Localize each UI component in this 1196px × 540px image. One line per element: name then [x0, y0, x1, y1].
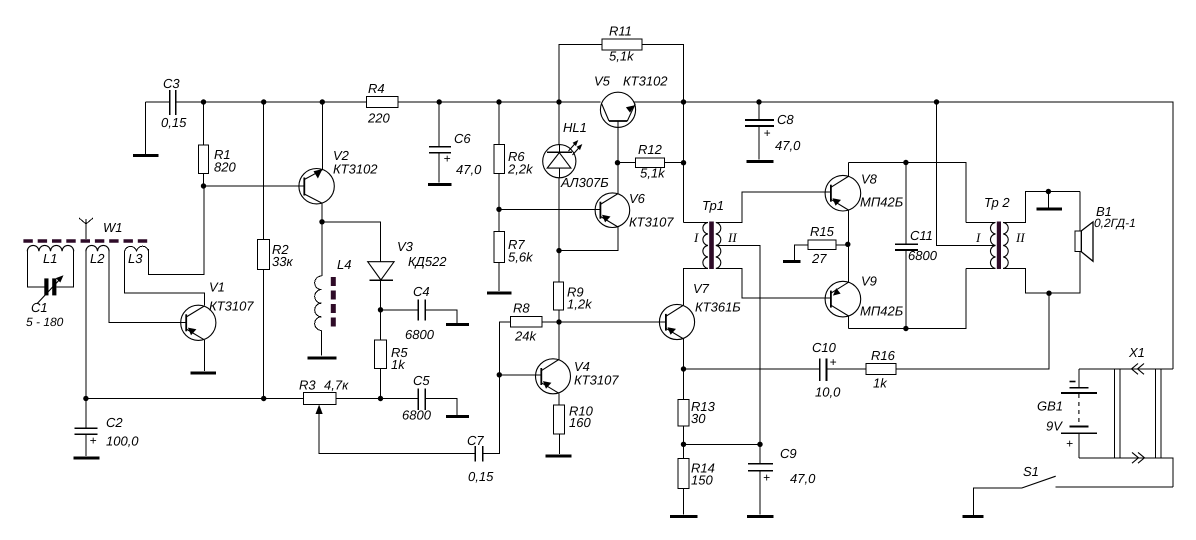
capacitor C5	[381, 373, 458, 423]
svg-text:0,15: 0,15	[161, 115, 187, 130]
svg-text:+: +	[1066, 437, 1073, 451]
wire: L2 right to V1 base	[109, 251, 186, 323]
svg-text:C1: C1	[31, 300, 48, 315]
svg-text:МП42Б: МП42Б	[860, 195, 904, 210]
svg-text:C3: C3	[163, 76, 180, 91]
ground (R10)	[546, 454, 572, 457]
node: R12 left junction	[615, 160, 620, 165]
transistor V6	[559, 163, 674, 251]
node: C11 top junction	[903, 160, 908, 165]
svg-text:КТ361Б: КТ361Б	[695, 300, 741, 315]
wire: junction to V4 base	[499, 374, 541, 376]
svg-text:47,0: 47,0	[456, 162, 482, 177]
resistor R11	[559, 24, 684, 103]
svg-text:HL1: HL1	[563, 120, 587, 135]
pin pair 2 of X1	[1155, 369, 1161, 458]
svg-text:Тр 2: Тр 2	[984, 195, 1010, 210]
svg-text:2,2k: 2,2k	[507, 162, 534, 177]
winding II (secondary) of Tr1	[716, 222, 721, 268]
node: R9/R8/V7-base junction	[556, 319, 561, 324]
svg-text:C4: C4	[413, 284, 430, 299]
svg-text:C11: C11	[910, 228, 933, 243]
svg-text:V3: V3	[397, 239, 414, 254]
transistor V5	[594, 74, 668, 163]
node: Tr2 secondary top junction	[1046, 189, 1051, 194]
ground (R15)	[783, 260, 801, 263]
speaker B1	[1049, 192, 1136, 294]
wire: supply rail center	[176, 101, 601, 103]
inductor L4	[315, 222, 352, 356]
svg-text:5,1k: 5,1k	[640, 166, 666, 181]
wire: supply rail right	[634, 102, 1174, 369]
svg-text:30: 30	[691, 411, 706, 426]
winding I (primary) of Tr2	[966, 221, 996, 223]
antenna W1	[79, 218, 123, 239]
capacitor C11	[895, 163, 938, 329]
svg-text:47,0: 47,0	[775, 138, 801, 153]
core of L4 (ferrite, dashed)	[331, 277, 336, 329]
capacitor C4	[381, 284, 458, 342]
svg-text:МП42Б: МП42Б	[860, 304, 904, 319]
svg-text:L3: L3	[128, 251, 143, 266]
svg-text:R15: R15	[810, 224, 835, 239]
node: V8/V9 collector junction	[845, 242, 850, 247]
transistor V2	[299, 102, 378, 222]
node: R2 bottom junction	[261, 396, 266, 401]
inductor L1	[27, 245, 73, 287]
LED HL1 АЛ307Б	[543, 102, 610, 190]
ground (Tr2 secondary)	[1037, 192, 1063, 210]
resistor R14	[678, 444, 715, 514]
svg-text:C5: C5	[413, 373, 430, 388]
svg-text:КД522: КД522	[408, 254, 447, 269]
capacitor C9	[748, 444, 816, 514]
node: V6 emitter junction	[556, 248, 561, 253]
resistor R1	[199, 102, 237, 186]
wire: Tr1 center tap down	[717, 245, 761, 444]
svg-text:C9: C9	[780, 446, 797, 461]
potentiometer R3	[299, 378, 475, 454]
ground (R7)	[487, 291, 512, 294]
svg-text:220: 220	[367, 111, 390, 126]
svg-text:+: +	[763, 471, 770, 485]
wire: junction to V7 base	[559, 321, 666, 323]
wire: rail to Tr1 primary top	[683, 102, 685, 222]
wire: X1 bottom line	[1079, 458, 1173, 487]
wire: supply rail left segment	[146, 101, 170, 103]
svg-text:GB1: GB1	[1037, 399, 1063, 414]
svg-text:C8: C8	[777, 112, 794, 127]
transistor V4	[536, 322, 620, 405]
svg-text:L4: L4	[337, 257, 351, 272]
resistor R15	[795, 224, 849, 266]
wire: V2 emitter to V3 anode	[322, 222, 381, 262]
node: rail junction dots	[201, 99, 939, 104]
svg-text:R11: R11	[609, 24, 632, 39]
transistor V7	[659, 281, 741, 369]
svg-text:9V: 9V	[1046, 419, 1063, 434]
resistor R16	[866, 293, 1049, 390]
svg-text:R8: R8	[513, 301, 530, 316]
svg-text:6800: 6800	[908, 248, 938, 263]
node: Tr2 secondary bottom junction	[1046, 291, 1051, 296]
inductor L2	[86, 245, 109, 266]
svg-text:КТ3107: КТ3107	[209, 299, 254, 314]
node: V2 emitter junction	[319, 219, 324, 224]
capacitor C3	[161, 76, 187, 130]
node: C11 bottom junction	[903, 326, 908, 331]
svg-text:5 - 180: 5 - 180	[26, 315, 64, 329]
resistor R7	[494, 209, 534, 291]
ground (C4)	[446, 323, 469, 326]
svg-text:R16: R16	[871, 348, 896, 363]
svg-text:L2: L2	[90, 251, 105, 266]
svg-text:КТ3102: КТ3102	[333, 162, 378, 177]
wire: C3 to ground	[145, 102, 147, 154]
wire: L3 left to V1 collector	[125, 251, 205, 305]
svg-text:Тр1: Тр1	[702, 198, 724, 213]
svg-text:+: +	[444, 152, 451, 166]
svg-text:1k: 1k	[873, 376, 888, 391]
node: R12 right junction	[681, 160, 686, 165]
node: V3 cathode junction	[378, 307, 383, 312]
node: R13/R14/C9 junction	[681, 442, 686, 447]
svg-text:0,15: 0,15	[468, 469, 494, 484]
svg-text:R3: R3	[299, 378, 316, 393]
svg-text:V1: V1	[209, 280, 225, 295]
node: V7 emitter junction	[681, 366, 686, 371]
capacitor C6	[429, 102, 482, 182]
svg-text:C6: C6	[454, 131, 471, 146]
svg-text:+: +	[764, 126, 771, 140]
resistor R8	[499, 301, 559, 375]
node: R8/V4-base/C7 junction	[497, 372, 502, 377]
ground (C9)	[747, 515, 774, 518]
resistor R12	[618, 142, 684, 181]
capacitor C8	[745, 102, 801, 160]
wire: V8 emitter rail to Tr2 primary top	[848, 163, 966, 223]
wire: V9 emitter rail to Tr2 primary bottom	[848, 268, 966, 328]
svg-text:5,1k: 5,1k	[609, 49, 635, 64]
core of Tr2	[997, 222, 1001, 270]
ground (L4)	[308, 357, 337, 360]
svg-text:КТ3107: КТ3107	[629, 215, 674, 230]
svg-text:L1: L1	[43, 251, 57, 266]
node: R6/R7 junction	[496, 207, 501, 212]
svg-text:820: 820	[214, 160, 236, 175]
battery GB1	[1037, 369, 1097, 458]
transformer Tr1	[684, 192, 831, 444]
node: C9 top junction	[757, 442, 762, 447]
svg-text:27: 27	[811, 251, 827, 266]
svg-text:C10: C10	[812, 340, 837, 355]
capacitor C10	[812, 340, 866, 400]
ground (C2)	[73, 456, 99, 459]
wire: R13 junction to C9	[684, 443, 761, 445]
svg-text:КТ3107: КТ3107	[574, 373, 619, 388]
wire: rail junction down to Tr2 center tap	[937, 102, 996, 245]
resistor R6	[494, 102, 534, 209]
ground (C6)	[428, 183, 452, 186]
svg-text:6800: 6800	[405, 327, 435, 342]
chevron marks of X1	[1132, 364, 1145, 375]
capacitor C2	[74, 399, 139, 457]
svg-text:V5: V5	[594, 74, 611, 89]
resistor R10	[554, 404, 594, 455]
svg-text:КТ3102: КТ3102	[623, 74, 668, 89]
wire: junction down to L3 tap	[149, 186, 205, 275]
wire: ground bus (C2 to R3 to C5)	[86, 398, 381, 400]
svg-text:II: II	[1015, 230, 1025, 245]
svg-text:R12: R12	[638, 142, 663, 157]
svg-text:150: 150	[691, 473, 713, 488]
svg-text:6800: 6800	[402, 408, 432, 423]
svg-text:C2: C2	[106, 415, 123, 430]
ground (R14)	[670, 515, 698, 518]
ferrite rod (dashed bar)	[23, 239, 152, 243]
svg-text:R4: R4	[368, 81, 385, 96]
variable capacitor C1	[26, 275, 64, 329]
resistor R4	[367, 81, 398, 126]
svg-text:W1: W1	[103, 220, 123, 235]
svg-text:47,0: 47,0	[790, 471, 816, 486]
svg-text:I: I	[975, 230, 981, 245]
ground (C3)	[133, 154, 159, 157]
switch S1	[973, 464, 1173, 515]
transistor V1	[181, 280, 255, 372]
svg-text:+: +	[90, 434, 97, 448]
wire: HL1 cathode down to R9	[558, 178, 560, 282]
svg-text:0,2ГД-1: 0,2ГД-1	[1094, 216, 1136, 230]
winding II (secondary) of Tr2	[1003, 222, 1008, 268]
svg-text:АЛ307Б: АЛ307Б	[560, 175, 609, 190]
svg-text:10,0: 10,0	[815, 385, 841, 400]
svg-text:+: +	[830, 355, 837, 369]
transistor V8	[825, 163, 904, 245]
svg-text:C7: C7	[467, 433, 484, 448]
transistor V9	[825, 244, 904, 328]
svg-text:V9: V9	[861, 274, 877, 289]
svg-text:V8: V8	[861, 172, 878, 187]
resistor R5	[375, 310, 409, 399]
svg-text:S1: S1	[1023, 464, 1039, 479]
resistor R9	[554, 251, 594, 322]
svg-text:V7: V7	[693, 281, 710, 296]
svg-text:X1: X1	[1128, 345, 1145, 360]
resistor R13	[678, 369, 716, 444]
connector X1	[1079, 345, 1173, 487]
node: R1 bottom junction	[201, 183, 206, 188]
svg-text:33к: 33к	[272, 254, 293, 269]
wire: V7 emitter to C10	[684, 368, 820, 370]
wire: antenna/L2-left down to C2 node	[85, 251, 87, 398]
capacitor C7	[467, 375, 499, 484]
svg-text:1k: 1k	[391, 357, 406, 372]
svg-text:160: 160	[569, 415, 591, 430]
core of Tr1	[709, 222, 714, 270]
node: C2 junction	[83, 396, 88, 401]
ground (V1)	[191, 371, 217, 374]
node: R5 bottom junction	[378, 396, 383, 401]
svg-text:V6: V6	[629, 191, 646, 206]
svg-text:100,0: 100,0	[106, 434, 139, 449]
winding I (primary) of Tr1	[684, 221, 708, 223]
svg-text:II: II	[727, 230, 737, 245]
wire: junction to V2 base	[204, 185, 305, 187]
resistor R2	[258, 102, 294, 399]
wire: X1 top line	[1079, 368, 1173, 370]
pin pair 1 of X1	[1114, 369, 1119, 458]
ground (S1)	[963, 515, 984, 518]
inductor L3	[125, 246, 149, 266]
svg-text:24k: 24k	[514, 329, 537, 344]
diode V3 КД522	[368, 239, 448, 310]
ground (C8)	[747, 160, 774, 163]
wire: junction to V6 base	[499, 208, 600, 210]
ground (C5)	[446, 415, 469, 418]
svg-text:1,2k: 1,2k	[567, 297, 593, 312]
svg-text:4,7к: 4,7к	[324, 378, 349, 393]
transformer Tr2	[966, 192, 1080, 294]
svg-text:I: I	[693, 230, 699, 245]
svg-text:5,6k: 5,6k	[508, 250, 534, 265]
